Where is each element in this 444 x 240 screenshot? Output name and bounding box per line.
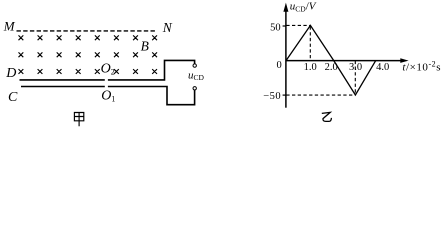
caption yi (Chinese: second) xyxy=(322,112,332,121)
y-axis with arrow xyxy=(285,11,287,108)
terminal bottom xyxy=(193,87,196,90)
svg-text:B: B xyxy=(141,39,149,54)
dashed guide at -50 level xyxy=(286,94,355,96)
svg-text:2.0: 2.0 xyxy=(325,62,338,73)
svg-text:50: 50 xyxy=(270,23,281,34)
caption jia (Chinese: first) xyxy=(74,113,83,127)
svg-text:t/×10-2s: t/×10-2s xyxy=(402,60,441,74)
svg-text:3.0: 3.0 xyxy=(349,62,362,73)
svg-text:0: 0 xyxy=(277,60,282,71)
tick and label -50 xyxy=(283,94,286,96)
tick and label 50 xyxy=(283,25,286,27)
svg-text:D: D xyxy=(5,66,16,81)
top rail D with output wire xyxy=(20,60,195,80)
x-axis with arrow xyxy=(286,60,402,62)
svg-text:M: M xyxy=(3,19,16,34)
dashed boundary line MN xyxy=(17,30,158,32)
svg-text:1.0: 1.0 xyxy=(304,62,317,73)
svg-text:C: C xyxy=(8,90,18,105)
terminal top xyxy=(193,64,196,67)
magnetic field region symbols (B into page) xyxy=(19,35,158,74)
dashed guide vertical at t=1.0 xyxy=(309,27,311,61)
bottom rail C with output wire xyxy=(21,87,195,105)
dashed guide vertical at t=3.0 xyxy=(354,61,356,95)
svg-text:4.0: 4.0 xyxy=(376,62,389,73)
waveform uCD(t) triangular xyxy=(286,25,376,95)
dashed guide at +50 level xyxy=(286,24,310,26)
svg-text:N: N xyxy=(162,20,173,35)
svg-text:−50: −50 xyxy=(263,91,281,102)
